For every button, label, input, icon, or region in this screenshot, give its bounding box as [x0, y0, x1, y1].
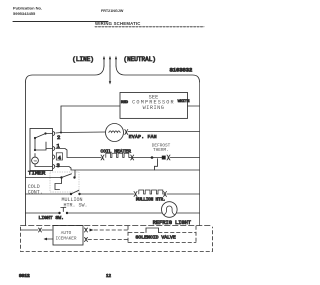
- wire mullion heater to neutral: [167, 193, 200, 195]
- connector icemaker right top: [85, 228, 88, 232]
- wire bottom bus (dashed): [21, 225, 213, 227]
- connector coil heater right: [131, 155, 134, 160]
- title underline: [95, 26, 204, 28]
- timer internal wire vertical: [34, 138, 36, 150]
- wire light switch to lamp: [67, 212, 162, 214]
- svg-text:WIRING: WIRING: [143, 105, 165, 111]
- wire lamp to neutral: [177, 212, 200, 214]
- label DEFROST THERM.: [152, 143, 171, 153]
- svg-text:S103832: S103832: [170, 68, 193, 74]
- wire junction to evap fan: [61, 131, 105, 134]
- connector icemaker left: [39, 228, 42, 232]
- icemaker fill arrow: [44, 238, 54, 241]
- wire line bus to mullion switch: [26, 193, 71, 195]
- connector evap fan right: [125, 130, 128, 135]
- wire to icemaker (dashed): [21, 229, 38, 231]
- svg-text:5995343455: 5995343455: [13, 11, 36, 16]
- plug prong line (left): [103, 56, 105, 66]
- wire terminal 3 to cold control: [56, 167, 200, 177]
- label MULLION HTR. SW.: [62, 197, 88, 209]
- ground wire with arrow: [109, 66, 111, 85]
- terminal 4 connector: [54, 155, 55, 159]
- svg-text:AUTO: AUTO: [61, 231, 72, 236]
- solenoid valve coil: [146, 228, 159, 233]
- svg-text:CONT.: CONT.: [28, 190, 43, 196]
- svg-text:SOLENOID VALVE: SOLENOID VALVE: [136, 235, 176, 241]
- wire terminal 1 jog to heater row: [56, 149, 101, 158]
- defrost thermostat: [151, 156, 166, 170]
- svg-text:MULLION HTR.: MULLION HTR.: [136, 199, 165, 203]
- terminal number 4 boxed: [56, 153, 62, 162]
- terminal 2 connector: [54, 132, 55, 136]
- svg-text:ICEMAKER: ICEMAKER: [55, 237, 76, 242]
- mullion heater switch: [70, 190, 81, 195]
- terminal 1 connector: [54, 147, 55, 151]
- wire terminal 2 to junction: [56, 132, 61, 135]
- wire red to compressor box: [61, 105, 120, 107]
- wire vertical from compressor red down: [60, 106, 62, 133]
- wire left line bus: [25, 82, 27, 226]
- svg-text:WHITE: WHITE: [178, 100, 190, 104]
- plug prong ground (middle): [109, 56, 111, 66]
- svg-text:EVAP. FAN: EVAP. FAN: [129, 134, 157, 140]
- wire line bus to light switch: [26, 212, 60, 214]
- svg-text:FRT21NGJW: FRT21NGJW: [101, 9, 124, 13]
- mullion heater element: [139, 190, 164, 194]
- label COLD CONT.: [28, 184, 43, 196]
- terminal 3 connector: [54, 165, 55, 169]
- coil heater element: [106, 153, 130, 157]
- wire line cord to left bus: [26, 66, 105, 82]
- svg-text:TM: TM: [33, 160, 37, 163]
- connector mullion heater right: [164, 192, 167, 197]
- wire defrost to neutral: [170, 157, 199, 159]
- icemaker feed arrow right: [90, 229, 94, 232]
- header left rule: [13, 21, 108, 23]
- wire evap fan to neutral: [128, 131, 200, 133]
- timer internal contact C: [34, 149, 36, 151]
- wire solenoid (dashed): [129, 232, 196, 234]
- svg-text:RED: RED: [121, 101, 129, 105]
- cold control switch: [50, 172, 79, 192]
- svg-text:HTR. SW.: HTR. SW.: [64, 203, 88, 209]
- compressor wiring box: [120, 93, 188, 119]
- connector mullion heater left: [134, 192, 137, 197]
- connector coil heater left: [101, 155, 104, 160]
- svg-text:Publication No.: Publication No.: [13, 6, 42, 11]
- timer internal wire to terminal 1: [35, 142, 53, 150]
- svg-text:2: 2: [57, 134, 60, 141]
- wire neutral cord to right bus: [116, 66, 200, 82]
- connector icemaker right bottom: [85, 238, 88, 242]
- evap fan motor: [106, 124, 124, 142]
- timer switch arm: [35, 134, 46, 139]
- defrost timer box: [30, 129, 53, 171]
- solenoid valve sub-box dashed: [128, 226, 196, 243]
- wire connector to icemaker box: [42, 229, 52, 231]
- svg-text:WIRING SCHEMATIC: WIRING SCHEMATIC: [95, 21, 141, 26]
- timer internal contact B: [44, 132, 46, 134]
- timer motor wire to terminal 3: [35, 154, 53, 167]
- timer wire to terminal 2: [46, 133, 53, 135]
- svg-text:TIMER: TIMER: [28, 170, 46, 177]
- svg-text:THERM.: THERM.: [153, 148, 169, 153]
- svg-text:9912: 9912: [19, 273, 30, 279]
- timer internal contact A: [34, 137, 36, 139]
- wire icemaker top to solenoid circuit (dashed): [94, 229, 128, 231]
- wire mullion switch to heater: [80, 193, 134, 195]
- auto icemaker box: [53, 226, 83, 246]
- wire icemaker bottom to solenoid circuit (dashed): [88, 239, 128, 241]
- dashed icemaker option enclosure: [21, 227, 213, 252]
- connector defrost right: [167, 155, 170, 160]
- svg-text:(LINE): (LINE): [72, 56, 94, 63]
- wire compressor box to neutral: [188, 105, 200, 107]
- wire right neutral bus: [199, 82, 201, 226]
- junction node at evap fan row: [60, 132, 62, 134]
- svg-text:3: 3: [57, 162, 60, 169]
- light switch (door plunger): [58, 208, 68, 215]
- svg-text:12: 12: [106, 273, 111, 278]
- timer motor: [32, 157, 39, 164]
- wire coil heater to defrost thermostat: [130, 157, 151, 159]
- refrigerator light lamp: [162, 202, 178, 218]
- svg-text:COIL HEATER: COIL HEATER: [101, 148, 132, 154]
- header publication text: [13, 6, 42, 17]
- svg-text:LIGHT SW.: LIGHT SW.: [39, 215, 64, 221]
- wire line bus to cold control: [26, 177, 61, 179]
- svg-text:(NEUTRAL): (NEUTRAL): [124, 56, 156, 63]
- plug prong neutral (right): [115, 56, 117, 66]
